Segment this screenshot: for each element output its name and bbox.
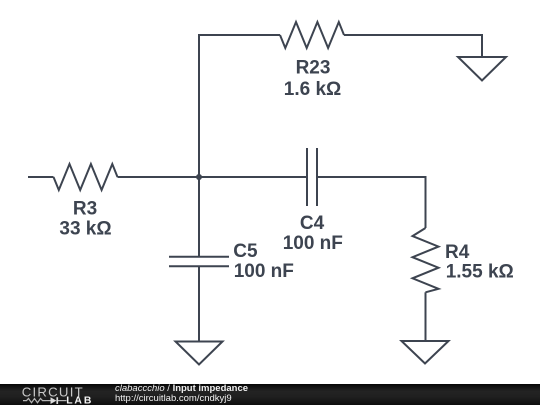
svg-text:R23: R23 [296, 57, 331, 78]
node A junction dot [196, 174, 202, 180]
label C4 [283, 213, 343, 254]
wire: R3 to node A [118, 176, 200, 178]
svg-text:100 nF: 100 nF [234, 261, 294, 282]
svg-text:C4: C4 [300, 213, 325, 234]
label R23 [284, 57, 342, 100]
resistor R3 [54, 164, 118, 190]
resistor R23 [280, 22, 344, 48]
capacitor C5 [169, 257, 229, 267]
wire: node A to C4 [199, 176, 307, 178]
svg-text:C5: C5 [233, 241, 258, 262]
ground (C5) [176, 342, 223, 365]
svg-text:1.55 kΩ: 1.55 kΩ [446, 261, 514, 282]
capacitor C4 [307, 148, 317, 206]
ground (top right) [458, 57, 506, 81]
wire: R23 to top-right ground [344, 35, 482, 57]
label R3 [59, 198, 111, 239]
wire: C5 to ground [198, 266, 200, 341]
wire: node A up and across top [199, 35, 280, 177]
resistor R4 [413, 228, 439, 292]
svg-text:R4: R4 [445, 242, 470, 263]
wire: R3 left lead [28, 176, 54, 178]
ground (R4) [402, 341, 449, 364]
label R4 [445, 242, 514, 282]
footer bar [0, 384, 540, 405]
svg-text:100 nF: 100 nF [283, 233, 343, 254]
label C5 [233, 241, 294, 282]
footer caption [115, 384, 248, 404]
wire: node A down to C5 [198, 177, 200, 257]
wire: C4 to R4 branch [317, 177, 426, 228]
svg-text:R3: R3 [73, 198, 97, 219]
CircuitLab logo [0, 384, 110, 405]
svg-text:33 kΩ: 33 kΩ [59, 218, 111, 239]
svg-text:LAB: LAB [66, 396, 93, 405]
wire: R4 to ground [425, 292, 427, 341]
svg-text:1.6 kΩ: 1.6 kΩ [284, 79, 342, 100]
